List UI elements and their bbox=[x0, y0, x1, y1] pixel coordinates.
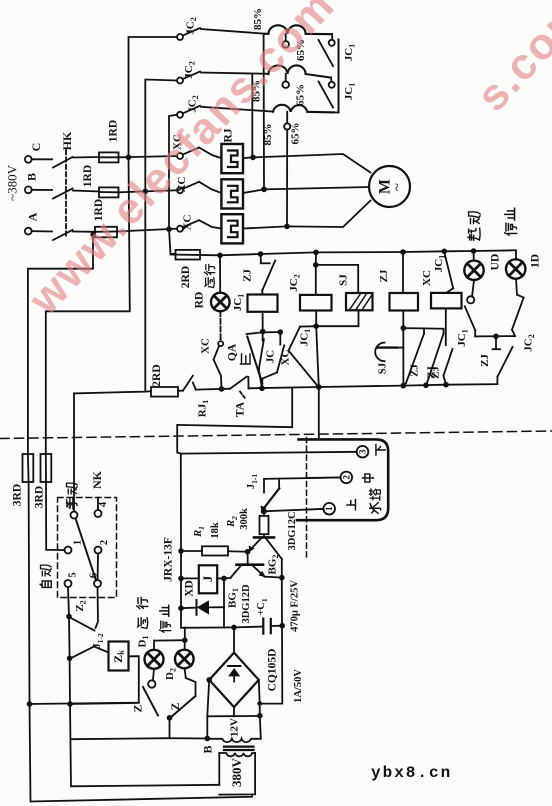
capacitor C1 bbox=[256, 598, 282, 634]
contact XC no.3 bbox=[177, 215, 221, 232]
contact JC1 main no.1 bbox=[319, 34, 357, 66]
node bus RD bbox=[217, 253, 223, 259]
wire winding3 tap drop bbox=[286, 130, 288, 227]
node rail R1 bbox=[178, 548, 184, 554]
node bus hold bbox=[259, 386, 265, 392]
autotransformer winding 2 bbox=[251, 65, 332, 106]
svg-text:JC1: JC1 bbox=[299, 329, 312, 346]
svg-text:2RD: 2RD bbox=[180, 266, 192, 288]
wire motor line 2 bbox=[243, 187, 369, 193]
blade NK 3-6 bbox=[76, 518, 97, 580]
node phase B bbox=[143, 189, 149, 195]
lamp D1 bbox=[145, 650, 164, 669]
thermal element RJ heater 1 bbox=[221, 128, 243, 173]
svg-text:Zk: Zk bbox=[111, 650, 126, 663]
transformer core bbox=[224, 747, 254, 750]
svg-text:1RD: 1RD bbox=[108, 120, 120, 142]
watermark fragment top right bbox=[467, 0, 552, 121]
svg-text:JC1: JC1 bbox=[343, 44, 356, 61]
wire bridge bottom bbox=[233, 707, 235, 716]
diode XD bbox=[181, 580, 224, 615]
wire D lamp feed bbox=[154, 628, 188, 650]
coil ZJ bbox=[378, 252, 418, 331]
wire y704 line bbox=[70, 703, 139, 704]
svg-text:XC: XC bbox=[182, 215, 194, 231]
fuse 2RD lower bbox=[151, 364, 178, 396]
svg-text:18k: 18k bbox=[210, 522, 221, 539]
node bus xczj bbox=[443, 382, 449, 388]
contact RJ1 thermal nc bbox=[183, 376, 210, 417]
svg-text:JC1: JC1 bbox=[456, 329, 469, 346]
wire minus rail bbox=[260, 578, 283, 704]
node bus lampbranch bbox=[219, 386, 225, 392]
terminal NK 4 bbox=[95, 498, 110, 518]
label zhong middle bbox=[363, 474, 374, 482]
svg-text:A: A bbox=[26, 212, 40, 221]
wire tap to control fuse 2RD bbox=[169, 229, 176, 254]
svg-text:12V: 12V bbox=[229, 718, 241, 737]
svg-text:R2: R2 bbox=[226, 516, 239, 528]
wire phase C tap down to 3RD bbox=[46, 157, 130, 454]
contact JC1 main no.2 bbox=[319, 78, 357, 108]
svg-text:s.com: s.com bbox=[467, 0, 552, 121]
svg-text:2: 2 bbox=[341, 475, 351, 480]
switch NK box bbox=[58, 470, 117, 597]
relay J box bbox=[181, 565, 224, 593]
wire JC1 star bus bbox=[334, 40, 339, 113]
svg-text:JC2: JC2 bbox=[183, 61, 196, 78]
motor M bbox=[369, 166, 410, 207]
label ybx8.cn bbox=[371, 764, 452, 782]
svg-text:85%: 85% bbox=[252, 8, 264, 30]
fuse 3RD right bbox=[34, 454, 52, 508]
coil JC2 bbox=[288, 252, 332, 310]
contact JC2 nc under 1D bbox=[512, 279, 536, 352]
terminal B bbox=[25, 173, 53, 193]
svg-text:HK: HK bbox=[60, 131, 74, 150]
svg-text:JC1: JC1 bbox=[343, 83, 356, 100]
contact XC aux under RD bbox=[200, 311, 224, 389]
wire phase A tap down to 3RD bbox=[28, 232, 96, 454]
watermark elecfans bbox=[19, 0, 345, 325]
wire NK3 riser bbox=[73, 393, 75, 511]
resistor R2 300k bbox=[226, 508, 269, 537]
node bus UD bbox=[471, 248, 477, 254]
wire control bottom bus bbox=[74, 384, 497, 393]
label tingzhi stop bbox=[505, 208, 517, 235]
node bus sj bbox=[401, 383, 407, 389]
contact Z lamp D2 bbox=[170, 668, 196, 717]
terminal NK 6 bbox=[89, 573, 102, 587]
contact Z lamp D1 bbox=[133, 669, 159, 716]
svg-text:RJ1: RJ1 bbox=[197, 400, 210, 417]
node bus XCcoil bbox=[442, 249, 448, 255]
contact JC2 no.3 bbox=[177, 95, 273, 118]
svg-text:JC2: JC2 bbox=[185, 17, 198, 34]
separator dashed line bbox=[0, 431, 552, 439]
svg-text:ZJ: ZJ bbox=[242, 269, 254, 282]
autotransformer winding 1 bbox=[252, 8, 332, 61]
contact XC no.1 bbox=[172, 134, 222, 159]
svg-text:65%: 65% bbox=[295, 84, 307, 106]
svg-text:3DG12C: 3DG12C bbox=[287, 511, 298, 550]
terminal NK 3 bbox=[67, 503, 78, 519]
svg-text:J1-2: J1-2 bbox=[92, 633, 105, 648]
node phase C bbox=[126, 155, 132, 161]
svg-text:J1-1: J1-1 bbox=[246, 474, 259, 489]
lamp UD bbox=[464, 251, 501, 280]
svg-text:SJ: SJ bbox=[338, 274, 350, 286]
node rail 704 bbox=[67, 701, 73, 707]
lamp 1D bbox=[506, 250, 542, 278]
label 470uF25V bbox=[290, 580, 301, 632]
wire tank common from bus bbox=[318, 387, 320, 439]
probe electrode 2 bbox=[307, 472, 353, 484]
svg-text:XC: XC bbox=[421, 270, 433, 286]
tank wall dashed bbox=[306, 438, 308, 559]
svg-text:J: J bbox=[200, 575, 215, 582]
node BG1 emitter rail bbox=[279, 575, 285, 581]
svg-text:JC2: JC2 bbox=[288, 274, 301, 291]
wire bridge right down bbox=[257, 680, 262, 738]
wire phase B to XC2 bbox=[119, 190, 178, 192]
wire motor line 3 bbox=[243, 201, 371, 230]
contact J1-2 bbox=[70, 633, 109, 659]
terminal NK 5 bbox=[65, 572, 79, 587]
label 3DG12C bbox=[287, 511, 298, 550]
label zidong auto bbox=[40, 565, 51, 587]
svg-text:300k: 300k bbox=[239, 508, 250, 530]
label CQ105D bbox=[267, 649, 279, 692]
knife switch HK bbox=[53, 131, 74, 240]
contact ZJ parallel 2 bbox=[424, 328, 444, 385]
contact ZJ lamps bbox=[479, 336, 513, 384]
svg-text:D1: D1 bbox=[137, 636, 150, 648]
svg-text:3RD: 3RD bbox=[34, 486, 46, 508]
label 1A50V bbox=[293, 669, 304, 703]
svg-text:CQ105D: CQ105D bbox=[267, 649, 279, 692]
wire holding line bbox=[247, 329, 284, 335]
contact JC2 no.2 bbox=[177, 61, 269, 83]
fuse 2RD control bbox=[171, 250, 221, 288]
thermal element RJ heater 3 bbox=[221, 214, 243, 243]
node secondary left bbox=[205, 736, 211, 742]
terminal NK 2 bbox=[95, 540, 111, 554]
wire coil bottoms join bbox=[313, 310, 358, 387]
contact Z2 bbox=[69, 587, 98, 631]
wire NK5 rail down bbox=[68, 587, 219, 786]
probe electrode 1 bbox=[307, 503, 336, 515]
bridge rectifier CQ105D bbox=[209, 653, 259, 708]
wire JC1 coil to hold line bbox=[260, 312, 266, 335]
svg-text:3RD: 3RD bbox=[12, 484, 24, 506]
resistor R1 18k bbox=[181, 522, 248, 555]
node J out bbox=[221, 576, 227, 628]
contact ZJ parallel 1 bbox=[403, 328, 424, 386]
contact XC no.2 bbox=[176, 177, 221, 194]
svg-text:1RD: 1RD bbox=[82, 165, 94, 187]
svg-text:1: 1 bbox=[73, 540, 84, 545]
fuse 1RD phase C bbox=[99, 120, 120, 163]
wire lamp join bbox=[475, 334, 515, 340]
node bridge top bbox=[231, 625, 237, 653]
svg-text:1D: 1D bbox=[530, 254, 542, 268]
contact JC1 aux bbox=[289, 326, 319, 386]
node bus zj2 bbox=[423, 383, 429, 389]
label tingzhi D2 bbox=[160, 605, 177, 680]
wire left rail down bbox=[29, 482, 253, 802]
svg-text:ZJ: ZJ bbox=[378, 269, 390, 282]
svg-text:TA: TA bbox=[235, 401, 247, 417]
svg-text:QA: QA bbox=[227, 343, 239, 361]
svg-text:3DG12D: 3DG12D bbox=[241, 584, 252, 624]
svg-text:~: ~ bbox=[390, 183, 406, 191]
label B transformer bbox=[201, 745, 215, 753]
svg-text:Z: Z bbox=[133, 704, 145, 712]
wire 3RD right to NK 1 bbox=[46, 482, 65, 550]
svg-text:4: 4 bbox=[98, 501, 109, 507]
svg-text:JC1: JC1 bbox=[232, 294, 245, 311]
label shang upper bbox=[347, 500, 356, 510]
wire HK to fuses bbox=[73, 157, 99, 232]
label D1 yunxing bbox=[137, 598, 150, 648]
svg-text:B: B bbox=[201, 745, 215, 753]
svg-text:ZJ: ZJ bbox=[409, 364, 421, 377]
label xia lower bbox=[376, 445, 385, 455]
svg-text:1A/50V: 1A/50V bbox=[293, 669, 304, 703]
wire riser to JC2-3 bbox=[169, 115, 177, 229]
coil XC bbox=[431, 293, 462, 309]
label shuita water tower bbox=[370, 489, 381, 514]
wire motor line 1 bbox=[243, 154, 371, 173]
svg-text:B: B bbox=[25, 173, 39, 181]
node left rail 704 bbox=[27, 701, 33, 707]
fuse 1RD phase B bbox=[82, 165, 119, 198]
svg-text:Z2: Z2 bbox=[74, 600, 87, 611]
wire phase C to XC1 bbox=[119, 156, 178, 157]
wire JRX left rail bbox=[181, 454, 262, 628]
wire 85% tap bus bbox=[251, 74, 253, 157]
svg-text:Z: Z bbox=[170, 702, 182, 710]
svg-text:+C1: +C1 bbox=[256, 598, 269, 616]
svg-text:470µ F/25V: 470µ F/25V bbox=[290, 580, 301, 632]
autotransformer winding 3 bbox=[262, 105, 334, 146]
svg-text:UD: UD bbox=[490, 254, 502, 271]
wire riser to JC2-1 bbox=[129, 37, 178, 157]
svg-text:3: 3 bbox=[67, 503, 78, 508]
wire control top bus bbox=[220, 250, 516, 255]
contact JC1 nc under UD bbox=[456, 280, 475, 347]
node phase A bbox=[166, 226, 172, 232]
transistor BG1 bbox=[224, 552, 282, 624]
svg-text:SJ: SJ bbox=[377, 362, 389, 374]
wire probe 3 line bbox=[181, 452, 357, 454]
contact XC hold bbox=[262, 332, 292, 388]
node C1 rail bbox=[279, 623, 285, 629]
svg-text:JRX-13F: JRX-13F bbox=[163, 537, 175, 582]
fuse 1RD phase A bbox=[93, 199, 117, 237]
node bus ZJcoil bbox=[400, 249, 406, 255]
svg-text:BG2: BG2 bbox=[267, 555, 280, 575]
relay coil Z bbox=[109, 642, 129, 671]
svg-text:JC1: JC1 bbox=[433, 255, 446, 272]
lamp D2 bbox=[175, 650, 194, 669]
label JRX-13F bbox=[163, 537, 175, 582]
svg-text:1: 1 bbox=[324, 506, 334, 511]
svg-text:65%: 65% bbox=[290, 123, 302, 145]
contact ZJ no (series with JC1 coil) bbox=[242, 254, 276, 295]
svg-text:D2: D2 bbox=[164, 668, 177, 680]
button QA start bbox=[227, 337, 263, 384]
terminal NK 1 bbox=[65, 540, 84, 554]
node lamp return bbox=[71, 715, 207, 739]
coil JC1 bbox=[232, 294, 278, 312]
wire bus to JRX rail elbow bbox=[177, 388, 292, 453]
svg-text:ZJ: ZJ bbox=[426, 366, 438, 379]
contact JC hold bbox=[259, 332, 277, 388]
wire riser to JC2-2 bbox=[145, 80, 177, 192]
svg-text:ZJ: ZJ bbox=[479, 354, 491, 367]
svg-text:XC: XC bbox=[200, 338, 212, 354]
contact JC2 no.1 bbox=[177, 17, 264, 40]
terminal C bbox=[25, 143, 52, 163]
wire phase B to bottom bus bbox=[144, 191, 146, 391]
svg-text:JC2: JC2 bbox=[523, 334, 536, 351]
node rail z2 bbox=[66, 614, 72, 620]
wire bridge left to secondary bbox=[206, 677, 212, 738]
contact ZJ under XC coil bbox=[426, 308, 453, 384]
thermal element RJ heater 2 bbox=[221, 179, 243, 208]
node rail XD bbox=[178, 605, 184, 611]
svg-text:ybx8.cn: ybx8.cn bbox=[371, 764, 452, 782]
svg-text:2RD: 2RD bbox=[151, 364, 163, 386]
wire Z coil out bbox=[30, 656, 139, 704]
wire winding1 drop bbox=[263, 34, 265, 190]
node bus ZJcontact bbox=[258, 251, 264, 257]
svg-text:RD: RD bbox=[194, 292, 206, 309]
wire phase A to XC3 bbox=[117, 229, 177, 232]
svg-text:3: 3 bbox=[358, 449, 368, 454]
svg-text:380V: 380V bbox=[229, 757, 244, 787]
svg-text:R1: R1 bbox=[193, 526, 206, 538]
contact JC1 nc over XC coil bbox=[421, 253, 453, 293]
svg-text:BG1: BG1 bbox=[227, 588, 240, 608]
wire 12V frame top bbox=[207, 713, 262, 719]
fuse 3RD left bbox=[12, 454, 34, 506]
water tank box bbox=[297, 439, 388, 520]
transistor BG2 bbox=[249, 537, 282, 577]
probe electrode 3 bbox=[357, 446, 369, 458]
label ~380V supply bbox=[5, 164, 20, 201]
terminal A bbox=[25, 212, 52, 234]
transformer secondary 12V bbox=[207, 718, 261, 742]
svg-text:5: 5 bbox=[68, 572, 79, 577]
label qidong start bbox=[468, 212, 480, 240]
label RD yunxing bbox=[205, 264, 215, 287]
node bus coils bbox=[316, 384, 322, 390]
node bus JC2coil bbox=[313, 250, 319, 256]
lamp RD run indicator bbox=[194, 255, 230, 311]
node rail J bbox=[178, 576, 184, 582]
svg-text:NK: NK bbox=[90, 470, 104, 489]
svg-text:C: C bbox=[29, 143, 43, 152]
wire NK2 to NK6 bbox=[97, 554, 99, 581]
svg-text:XD: XD bbox=[184, 580, 196, 597]
svg-text:JC: JC bbox=[265, 350, 277, 364]
node R1 base bbox=[245, 549, 251, 555]
transformer primary 380V bbox=[219, 753, 255, 795]
wire probe 1 line bbox=[261, 508, 324, 516]
svg-text:~380V: ~380V bbox=[5, 164, 20, 201]
coil SJ time relay bbox=[316, 265, 373, 310]
label shoudong manual bbox=[67, 483, 78, 509]
node rail j12 bbox=[67, 656, 73, 662]
contact J1-1 bbox=[246, 474, 341, 512]
svg-text:2: 2 bbox=[99, 540, 110, 545]
button TA stop bbox=[230, 377, 249, 417]
contact SJ delayed bbox=[375, 328, 403, 386]
